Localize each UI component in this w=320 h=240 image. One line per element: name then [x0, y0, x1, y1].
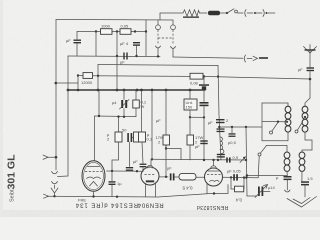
wire cap stem — [76, 32, 78, 40]
wire y160 — [152, 158, 246, 161]
wire node A horizontal y31.5 — [77, 31, 146, 33]
lamp terminal L2 — [172, 20, 174, 25]
svg-text:0,4 5: 0,4 5 — [182, 186, 193, 191]
capacitor C11 — [142, 142, 143, 163]
wire B right — [173, 57, 243, 58]
resistor R2 — [120, 29, 131, 35]
antenna coil link — [305, 98, 310, 106]
switch S2 — [295, 130, 298, 133]
switch S0 — [220, 12, 226, 14]
svg-text:µF: µF — [120, 60, 125, 65]
plug hook H2 — [171, 47, 176, 49]
svg-text:µ14: µ14 — [268, 185, 276, 190]
resistor R-c3 — [141, 90, 143, 132]
svg-text:µF: µF — [195, 144, 200, 149]
capacitor C14 — [284, 176, 292, 178]
svg-text:µF: µF — [167, 166, 172, 171]
wire y175.5 — [246, 175, 287, 177]
capacitor C19 on wire y160 — [226, 157, 228, 162]
svg-text:1µ: 1µ — [117, 181, 122, 186]
svg-text:150: 150 — [186, 105, 193, 110]
resistor R11 bypass — [231, 177, 235, 189]
resistor R9 — [187, 135, 194, 145]
wire y127 — [219, 126, 262, 128]
bus junction dots — [97, 89, 100, 92]
wire below C1 — [76, 44, 78, 57]
anode wire y171 — [107, 170, 144, 172]
node dots on wire A — [95, 30, 97, 32]
svg-text:301 GL: 301 GL — [6, 154, 18, 190]
svg-text:µ4: µ4 — [112, 100, 117, 105]
top frame wire — [56, 19, 173, 22]
coil K1 — [287, 103, 289, 106]
column x190 — [184, 99, 197, 110]
ground symbol — [287, 197, 317, 208]
capacitor C13 — [307, 67, 315, 68]
wire W2 — [93, 75, 191, 78]
capacitor C2 series on bus B — [123, 53, 124, 60]
resistor R4 — [190, 73, 203, 79]
lamp terminal L1 — [157, 20, 159, 25]
wire x117 below — [116, 56, 118, 90]
wire vertical x96 — [95, 32, 97, 57]
wire tap y83 — [55, 82, 78, 84]
wire bus B y56 — [68, 55, 160, 58]
dashed heater path — [157, 30, 159, 45]
svg-text:µF 0,05: µF 0,05 — [227, 169, 241, 174]
capacitor C8 — [217, 154, 225, 155]
wire vertical x68 — [67, 56, 69, 176]
capacitor C3 — [133, 42, 140, 43]
switch S3 — [258, 153, 261, 156]
svg-text:RENS1823d: RENS1823d — [197, 204, 229, 210]
coupling capacitor C18 — [233, 174, 235, 180]
svg-text:W: W — [141, 104, 145, 109]
capacitor C7b — [217, 128, 225, 129]
column x99 — [98, 90, 100, 116]
coupling capacitor C12 — [159, 176, 168, 178]
svg-text:1000: 1000 — [101, 24, 111, 29]
coil K2 — [302, 106, 308, 132]
svg-text:0,4: 0,4 — [235, 198, 241, 203]
mains contact arrow P2 — [244, 55, 245, 62]
left frame wire — [55, 20, 57, 171]
grid resistor R10 — [179, 173, 196, 180]
svg-text:µF: µF — [156, 118, 161, 123]
switch S1 — [270, 131, 273, 134]
fuse F1 — [200, 12, 207, 14]
svg-text:µF: µF — [66, 38, 71, 43]
svg-text:µF: µF — [298, 67, 303, 72]
svg-text:12000: 12000 — [81, 80, 93, 85]
heater line top — [160, 12, 183, 14]
coil K3 — [286, 146, 288, 153]
grid caps C-c2 — [127, 133, 129, 142]
svg-text:50: 50 — [122, 128, 127, 133]
resistor R12 — [163, 135, 170, 145]
bottom bus left — [44, 194, 49, 198]
capacitor C10 — [111, 171, 113, 181]
column x166 — [165, 90, 167, 177]
tap arrow — [43, 155, 48, 159]
resistor R6 — [135, 90, 137, 100]
svg-text:Seibt: Seibt — [10, 189, 16, 202]
wire y116 — [95, 115, 137, 118]
tube T3 RENS1823 — [205, 168, 223, 186]
column x152 tube2 — [151, 90, 153, 159]
svg-text:0,08: 0,08 — [190, 81, 199, 86]
svg-text:µF: µF — [208, 120, 213, 125]
svg-text:1,5: 1,5 — [307, 176, 313, 181]
wire to tube1 grid — [94, 116, 96, 161]
wire vertical x146 — [145, 20, 147, 56]
capacitor C15 — [301, 181, 309, 183]
wire y117.2 — [190, 116, 204, 118]
svg-text:µ0,5: µ0,5 — [228, 140, 237, 145]
jack link wire — [58, 175, 69, 178]
variable capacitor C16 — [247, 195, 257, 197]
tube T2 REN904 — [141, 167, 159, 185]
main bus B1 y90 — [68, 89, 205, 91]
grid capacitor box C-c1 — [118, 117, 120, 132]
inner frame right — [218, 66, 221, 161]
resistor R7 — [134, 132, 140, 142]
svg-text:µF 4: µF 4 — [120, 41, 129, 46]
coil box frame — [262, 102, 288, 104]
svg-text:FRE: FRE — [78, 198, 86, 203]
svg-text:µF: µF — [133, 159, 138, 164]
tube T1 RES164 — [82, 161, 105, 192]
wire to switch S3 — [258, 156, 259, 178]
plug hook H1 — [156, 46, 161, 48]
antenna — [304, 47, 311, 54]
capacitor C4 to bus — [203, 76, 205, 84]
inner frame left — [97, 65, 99, 91]
capacitor C1 — [74, 40, 82, 41]
choke coil CH — [220, 137, 224, 153]
capacitor C17 — [200, 140, 207, 141]
wire x246 down — [246, 127, 247, 196]
coil tap wire y121 — [262, 121, 286, 123]
capacitor C6 dark — [203, 90, 205, 102]
capacitor C9 — [231, 127, 233, 133]
filter column x221: capacitor C7 — [216, 119, 225, 120]
inner frame top wire — [98, 65, 218, 66]
tube T3 cathode wires — [207, 184, 228, 194]
resistor R1 — [101, 29, 113, 35]
coil K4 — [302, 150, 312, 152]
variable capacitor C5 — [123, 90, 125, 100]
anode wire y177.5 — [223, 176, 259, 179]
resistor zigzag RZ — [183, 10, 200, 16]
resistor R3 — [78, 75, 83, 77]
speaker jack J1 — [52, 172, 58, 174]
mains plug P1 — [245, 10, 246, 17]
svg-text:0,9: 0,9 — [233, 155, 239, 160]
svg-text:0,05: 0,05 — [121, 24, 130, 29]
title text Seibt 301GL (vertical, left margin) — [6, 154, 18, 202]
trimmer arrow — [240, 157, 246, 163]
wire vertical x117 — [116, 32, 118, 57]
antenna wire down — [309, 53, 311, 67]
svg-text:REN904: REN904 — [137, 202, 163, 208]
